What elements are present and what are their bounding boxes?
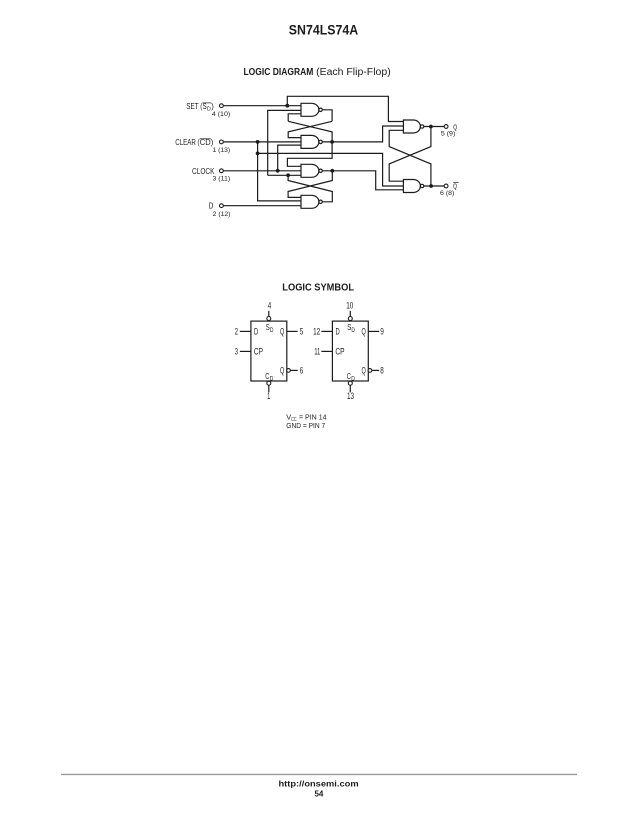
bubble SD U1 <box>267 317 271 321</box>
flip-flop box U1 <box>251 321 287 381</box>
svg-text:2 (12): 2 (12) <box>213 211 231 218</box>
svg-text:D: D <box>207 107 211 113</box>
svg-text:(Each Flip-Flop): (Each Flip-Flop) <box>316 67 391 78</box>
svg-text:9: 9 <box>380 327 384 337</box>
wire G2 output <box>322 126 403 142</box>
wire G5 lower input from G6 <box>389 130 431 186</box>
svg-text:GND = PIN 7: GND = PIN 7 <box>286 421 325 430</box>
wire D input <box>223 205 301 207</box>
pin 9 lead <box>368 330 379 332</box>
nand gate G6 <box>403 180 420 193</box>
svg-text:Q: Q <box>362 366 366 376</box>
svg-text:3: 3 <box>235 347 238 357</box>
svg-text:D: D <box>209 201 214 210</box>
wire CLEAR to G6 <box>258 153 404 186</box>
terminal D <box>220 204 224 208</box>
svg-text:SET (: SET ( <box>186 102 202 111</box>
nand gate G2 <box>301 135 319 148</box>
wire G3 output <box>322 171 403 190</box>
bubble G6 <box>420 184 423 187</box>
footer rule <box>61 773 577 775</box>
svg-text:): ) <box>211 102 214 111</box>
pin 12 lead <box>321 330 332 332</box>
svg-text:CD: CD <box>200 138 211 147</box>
bubble G5 <box>420 125 423 128</box>
terminal SET <box>220 104 224 108</box>
svg-text:CP: CP <box>254 347 263 357</box>
svg-text:5: 5 <box>300 327 304 337</box>
svg-text:1 (13): 1 (13) <box>213 147 231 154</box>
terminal CLOCK <box>220 169 224 173</box>
wire G2 output to G3 step <box>287 142 332 166</box>
pin 11 lead <box>321 350 332 352</box>
node G3 output junction <box>330 169 334 173</box>
wire Q output <box>424 126 444 128</box>
node G3 lower input junction <box>286 173 290 177</box>
nand gate G3 <box>301 164 319 177</box>
wire CLOCK to G2 <box>278 145 301 171</box>
pin 8 lead <box>372 369 379 371</box>
svg-text:CLOCK: CLOCK <box>192 167 215 176</box>
bubble SD U2 <box>348 317 352 321</box>
flip-flop box U2 <box>332 321 368 381</box>
bubble G3 <box>319 169 322 172</box>
pin 5 lead <box>287 330 298 332</box>
node Q junction <box>429 125 433 129</box>
svg-text:LOGIC SYMBOL: LOGIC SYMBOL <box>282 283 354 294</box>
pin 4 stem <box>268 311 270 317</box>
label SD U1 <box>266 323 274 334</box>
svg-text:8: 8 <box>380 366 384 376</box>
wire SET top route to G5 <box>287 96 403 121</box>
pin 13 stem <box>349 385 351 392</box>
node SET junction <box>285 104 289 108</box>
svg-text:D: D <box>351 327 355 334</box>
bubble Qbar U1 <box>287 369 291 373</box>
wire CLOCK input <box>223 170 301 172</box>
svg-text:SN74LS74A: SN74LS74A <box>289 22 358 38</box>
svg-text:Q: Q <box>280 327 284 337</box>
svg-text:10: 10 <box>346 301 353 311</box>
wire CLEAR input <box>223 141 301 143</box>
terminal Qbar <box>444 184 448 188</box>
nand gate G1 <box>301 103 319 116</box>
wire G3 output to X34 <box>288 171 332 198</box>
wire G3 lower input <box>268 174 301 176</box>
svg-text:6: 6 <box>300 366 304 376</box>
bubble G2 <box>319 140 322 143</box>
terminal Q <box>444 125 448 129</box>
pin 6 lead <box>290 369 297 371</box>
svg-text:CLEAR (: CLEAR ( <box>175 138 200 147</box>
svg-text:D: D <box>336 327 341 337</box>
label CLEAR (CD) <box>175 138 213 147</box>
label CD U2 <box>347 372 355 383</box>
svg-text:11: 11 <box>314 347 320 357</box>
wire Q cross to G6 <box>389 127 431 182</box>
nand gate G4 <box>301 195 319 208</box>
pin 3 lead <box>240 350 251 352</box>
wire SET input <box>223 105 301 107</box>
wire X12 diagonal B <box>288 121 332 142</box>
svg-text:2: 2 <box>235 327 238 337</box>
pin 1 stem <box>268 385 270 392</box>
svg-text:1: 1 <box>267 391 270 401</box>
label SD U2 <box>347 323 355 334</box>
svg-text:4 (10): 4 (10) <box>212 111 230 118</box>
svg-text:): ) <box>211 138 214 147</box>
bubble CD U1 <box>267 381 271 385</box>
svg-text:= PIN 14: = PIN 14 <box>299 412 327 421</box>
svg-text:4: 4 <box>268 301 272 311</box>
svg-text:6 (8): 6 (8) <box>440 190 454 197</box>
svg-text:LOGIC DIAGRAM: LOGIC DIAGRAM <box>244 67 314 78</box>
svg-text:CP: CP <box>335 347 344 357</box>
svg-text:Q: Q <box>280 366 284 376</box>
pin 2 lead <box>240 330 251 332</box>
label CD U1 <box>265 372 273 383</box>
bubble CD U2 <box>348 381 352 385</box>
wire G1 output to X12 <box>322 110 332 122</box>
node Qbar junction <box>429 184 433 188</box>
wire G4 feedback vertical <box>268 110 301 175</box>
svg-text:D: D <box>254 327 259 337</box>
wire X12 diagonal A <box>288 121 332 137</box>
wire Qbar output <box>424 185 444 187</box>
bubble G1 <box>319 108 322 111</box>
nand gate G5 <box>403 120 420 133</box>
wire G4 output to X34 <box>288 175 332 202</box>
bubble G4 <box>319 200 322 203</box>
node G2 output junction <box>330 140 334 144</box>
node CLOCK junction <box>276 169 280 173</box>
note VCC = PIN 14 <box>286 412 326 423</box>
terminal CLEAR <box>220 140 224 144</box>
svg-text:5 (9): 5 (9) <box>441 131 455 138</box>
label SET (SD) <box>186 102 214 113</box>
svg-text:54: 54 <box>314 789 323 798</box>
node CLEAR branch junction <box>256 152 260 156</box>
bubble Qbar U2 <box>368 369 372 373</box>
pin 10 stem <box>349 311 351 317</box>
svg-text:3 (11): 3 (11) <box>213 176 231 183</box>
svg-text:D: D <box>270 327 274 334</box>
wire G1 lower input from X12 <box>288 114 301 122</box>
svg-text:http://onsemi.com: http://onsemi.com <box>279 778 360 788</box>
svg-text:Q: Q <box>362 327 366 337</box>
svg-text:S: S <box>203 102 207 111</box>
svg-text:13: 13 <box>347 391 354 401</box>
svg-text:12: 12 <box>313 327 320 337</box>
node CLEAR junction <box>256 140 260 144</box>
label Qbar <box>453 182 459 191</box>
wire CLEAR down branch <box>258 142 301 201</box>
